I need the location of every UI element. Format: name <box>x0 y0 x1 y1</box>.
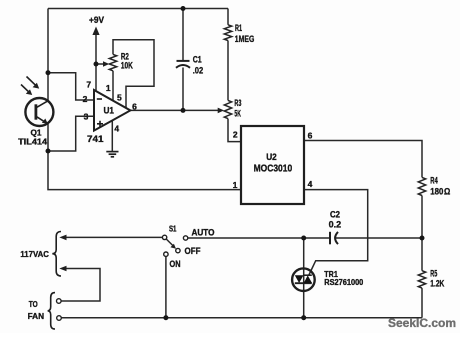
svg-text:1MEG: 1MEG <box>235 34 255 44</box>
svg-text:OFF: OFF <box>185 246 201 256</box>
svg-text:R3: R3 <box>234 98 241 108</box>
svg-text:U1: U1 <box>103 106 114 116</box>
svg-text:R1: R1 <box>235 23 242 33</box>
svg-text:117VAC: 117VAC <box>20 249 49 259</box>
svg-text:5K: 5K <box>234 108 241 118</box>
svg-text:S1: S1 <box>169 224 177 234</box>
svg-text:6: 6 <box>132 101 137 111</box>
svg-text:AUTO: AUTO <box>192 228 215 238</box>
svg-text:1: 1 <box>233 180 238 190</box>
svg-text:5: 5 <box>117 93 122 103</box>
svg-text:10K: 10K <box>121 60 133 70</box>
svg-text:180 Ω: 180 Ω <box>430 187 450 197</box>
svg-text:C1: C1 <box>193 55 202 65</box>
svg-text:741: 741 <box>87 134 104 145</box>
svg-text:1.2K: 1.2K <box>430 278 444 288</box>
svg-text:0.2: 0.2 <box>329 220 342 230</box>
svg-text:RS2761000: RS2761000 <box>324 278 364 287</box>
svg-text:FAN: FAN <box>28 311 44 321</box>
svg-text:2: 2 <box>83 94 88 104</box>
svg-text:+9V: +9V <box>89 15 104 25</box>
svg-text:4: 4 <box>308 179 313 189</box>
svg-text:.02: .02 <box>193 66 204 76</box>
svg-text:2: 2 <box>233 130 238 140</box>
svg-text:ON: ON <box>170 259 181 269</box>
svg-text:R5: R5 <box>430 269 437 279</box>
svg-text:TO: TO <box>29 299 38 309</box>
svg-text:6: 6 <box>308 130 313 140</box>
svg-text:4: 4 <box>114 124 119 134</box>
svg-text:1: 1 <box>106 83 111 93</box>
svg-text:R4: R4 <box>430 176 438 186</box>
svg-text:3: 3 <box>84 112 89 122</box>
svg-text:U2: U2 <box>266 152 277 162</box>
svg-text:TIL414: TIL414 <box>18 137 47 147</box>
svg-text:7: 7 <box>86 80 91 90</box>
svg-text:C2: C2 <box>330 210 340 220</box>
svg-text:SeekIC.com: SeekIC.com <box>388 316 456 330</box>
svg-text:MOC3010: MOC3010 <box>254 163 293 174</box>
